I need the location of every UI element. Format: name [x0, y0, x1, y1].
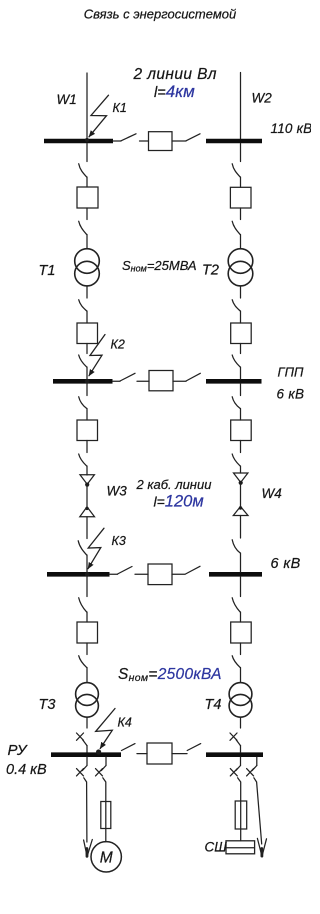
wire bus coupler GPP left lead	[113, 380, 121, 382]
disconnector blade coupler 6kV left	[118, 567, 133, 575]
wire feeder D down line	[254, 778, 262, 844]
wire cable W4	[240, 485, 242, 507]
wire	[86, 235, 88, 250]
transformer T3	[76, 683, 99, 706]
busbar RU 0.4kV left section	[51, 752, 121, 757]
breaker Q bus coupler GPP	[149, 371, 173, 391]
wire left below GPP bus	[86, 384, 88, 396]
feeder A stub from RU bus	[86, 757, 88, 766]
wire left below 110kV bus	[86, 144, 88, 162]
busbar 110kV left section	[44, 139, 113, 144]
feeder A automatic breaker x mark	[77, 769, 84, 776]
breaker Q bus coupler RU	[147, 743, 172, 764]
feeder D automatic breaker x mark	[247, 769, 254, 776]
fault K4 lightning arrow	[96, 709, 115, 749]
disconnector blade below T2	[232, 300, 240, 311]
disconnector blade above cable W4	[232, 454, 240, 466]
svg-text:К4: К4	[118, 716, 132, 730]
breaker Q4 left LV transformer feeder	[77, 622, 98, 643]
disconnector blade right below GPP bus	[232, 397, 240, 409]
fault K1 lightning arrow	[89, 95, 109, 137]
node K4 junction on RU bus	[96, 749, 101, 754]
fault K2 lightning arrow	[89, 335, 105, 376]
svg-text:l=120м: l=120м	[154, 493, 204, 511]
disconnector blade above GPP bus right	[232, 355, 240, 367]
wire	[240, 409, 242, 421]
disconnector blade above T4	[232, 656, 240, 668]
wire below T3	[86, 717, 88, 728]
feeder B automatic breaker x mark	[96, 769, 103, 776]
feeder C automatic breaker x mark	[230, 769, 237, 776]
panel SSh box	[226, 841, 255, 854]
wire into 6kV bus	[86, 555, 88, 572]
disconnector blade coupler 6kV right	[186, 566, 201, 574]
wire feeder B down line	[103, 778, 106, 842]
svg-text:М: М	[100, 850, 113, 867]
busbar 6kV right section	[209, 572, 262, 577]
transformer T1	[75, 249, 100, 274]
breaker Q3 cable feeder left	[77, 420, 98, 441]
breaker Q6 right HV side	[231, 323, 252, 344]
feeder C stub from RU bus	[240, 757, 242, 765]
wire bus coupler 6kV left lead	[110, 573, 118, 575]
cable termination W4 lower (triangle up)	[233, 507, 248, 516]
disconnector blade right above T2	[232, 221, 240, 234]
wire	[137, 380, 149, 382]
automatic breaker on T3 LV lead (x mark)	[77, 733, 84, 740]
svg-text:Sном=25МВА: Sном=25МВА	[122, 258, 197, 274]
motor M circle	[91, 842, 121, 872]
wire into GPP bus	[86, 367, 88, 379]
wire	[86, 441, 88, 453]
wire	[86, 517, 88, 539]
wire W2 line top segment	[240, 73, 242, 141]
wire left below 6kV bus	[86, 577, 88, 597]
wire right below 110kV bus	[240, 144, 242, 162]
svg-text:W3: W3	[107, 484, 128, 499]
disconnector blade left below GPP bus	[79, 397, 87, 409]
wire into GPP bus right	[240, 367, 242, 379]
svg-text:l=4км: l=4км	[154, 82, 195, 101]
svg-text:W2: W2	[252, 91, 273, 106]
svg-text:W1: W1	[57, 92, 77, 107]
feeder D automatic breaker blade	[252, 766, 257, 771]
svg-text:Т1: Т1	[39, 263, 56, 279]
disconnector blade coupler GPP right	[186, 373, 200, 381]
feeder A automatic breaker blade	[82, 766, 87, 771]
svg-text:2 линии Вл: 2 линии Вл	[133, 66, 217, 83]
wire	[86, 612, 88, 622]
busbar RU 0.4kV right section	[206, 752, 263, 757]
wire	[137, 753, 147, 755]
breaker Q2 left HV side	[77, 323, 98, 344]
busbar 110kV right section	[206, 139, 262, 144]
wire	[86, 311, 88, 323]
wire	[240, 668, 242, 683]
node junction on 6kV bus	[85, 572, 90, 577]
disconnector blade below T1	[79, 300, 87, 311]
transformer T2	[228, 249, 253, 274]
svg-text:Т2: Т2	[202, 263, 219, 279]
wire	[86, 409, 88, 421]
feeder B automatic breaker blade	[101, 766, 106, 771]
feeder D stub from RU bus	[256, 757, 258, 765]
svg-text:Sном=2500кВА: Sном=2500кВА	[118, 666, 222, 684]
svg-text:2 каб. линии: 2 каб. линии	[136, 477, 212, 492]
blade of automatic breaker T4 lead	[236, 740, 240, 746]
svg-text:Т3: Т3	[39, 697, 56, 713]
disconnector blade above GPP bus left	[79, 355, 87, 367]
wire	[86, 668, 88, 683]
wire	[172, 753, 187, 755]
disconnector blade left above T1	[79, 221, 87, 234]
wire feeder C down line	[238, 778, 241, 841]
feeder C automatic breaker blade	[236, 766, 241, 771]
wire	[240, 208, 242, 220]
wire cable W3	[86, 487, 88, 507]
wire	[86, 643, 88, 655]
svg-text:110 кВ: 110 кВ	[271, 121, 312, 136]
disconnector blade coupler GPP left	[120, 373, 135, 381]
wire right below 6kV bus	[240, 577, 242, 597]
disconnector blade bus coupler 110kV left	[121, 134, 136, 141]
wire feeder A down line	[84, 778, 87, 842]
disconnector blade above T3	[79, 656, 87, 668]
wire bus coupler 110kV left lead	[113, 140, 121, 142]
blade of automatic breaker T3 lead	[83, 740, 87, 746]
disconnector blade above 6kV bus left	[78, 541, 86, 555]
disconnector blade above cable W3	[79, 454, 87, 466]
arrow load feeder D	[257, 838, 266, 855]
svg-text:РУ: РУ	[8, 742, 28, 759]
cable termination W3 lower (triangle up)	[80, 507, 95, 517]
wire	[86, 208, 88, 220]
wire	[240, 516, 242, 539]
svg-text:Связь с энергосистемой: Связь с энергосистемой	[84, 7, 236, 22]
busbar 6kV left section	[47, 572, 110, 577]
fuse F1 motor feeder	[101, 802, 111, 829]
breaker Q1 left feeder	[77, 187, 98, 208]
disconnector blade coupler RU right	[187, 744, 201, 751]
wire W1 line top segment	[86, 73, 88, 139]
breaker Q bus coupler 110kV	[149, 132, 173, 151]
wire	[240, 643, 242, 655]
wire	[172, 573, 185, 575]
breaker Q8 right LV transformer feeder	[231, 622, 252, 643]
wire	[173, 380, 186, 382]
breaker Q5 right feeder	[230, 187, 251, 208]
disconnector blade left below 6kV bus	[79, 598, 87, 612]
svg-text:0.4 кВ: 0.4 кВ	[6, 762, 47, 778]
svg-text:ГПП: ГПП	[278, 365, 304, 380]
busbar GPP 6kV left section	[53, 379, 113, 384]
arrow load feeder A	[84, 840, 93, 856]
svg-text:К2: К2	[111, 338, 125, 352]
wire	[240, 344, 242, 354]
disconnector QS left feeder 110kV	[79, 164, 87, 177]
wire	[240, 612, 242, 622]
wire from coupler breaker 110kV	[172, 140, 186, 142]
wire into RU bus	[86, 746, 88, 753]
automatic breaker on T4 LV lead (x mark)	[230, 733, 237, 740]
fault K3 lightning arrow	[88, 528, 104, 569]
busbar GPP 6kV right section	[206, 379, 262, 384]
wire	[240, 177, 242, 187]
node junction on GPP bus	[85, 379, 90, 384]
wire below T4	[240, 717, 242, 728]
cable termination W4 upper (triangle down)	[234, 473, 248, 482]
node junction W1 / 110kV bus	[85, 138, 89, 142]
disconnector blade right below 6kV bus	[232, 598, 240, 612]
wire	[240, 466, 242, 473]
svg-text:6 кВ: 6 кВ	[277, 387, 305, 402]
wire	[86, 344, 88, 354]
breaker Q bus coupler 6kV	[148, 564, 172, 585]
transformer T4	[229, 683, 252, 706]
wire into 6kV bus right	[240, 553, 242, 572]
wire right below GPP bus	[240, 384, 242, 396]
wire	[240, 311, 242, 323]
fuse F2 lighting feeder	[235, 801, 247, 829]
wire	[135, 573, 148, 575]
wire below T1	[86, 286, 88, 298]
wire into RU bus right	[240, 746, 242, 753]
wire to coupler breaker 110kV	[140, 140, 149, 142]
svg-text:К3: К3	[112, 534, 126, 548]
wire below T2	[240, 286, 242, 298]
wire	[86, 177, 88, 187]
disconnector blade right feeder 110kV	[232, 164, 240, 177]
wire	[86, 466, 88, 475]
cable termination W3 upper (triangle down)	[80, 475, 94, 484]
svg-text:6 кВ: 6 кВ	[271, 556, 301, 572]
disconnector blade coupler RU left	[122, 744, 136, 751]
disconnector blade bus coupler 110kV right	[186, 134, 200, 141]
breaker Q7 cable feeder right	[231, 420, 252, 441]
wire	[240, 235, 242, 250]
disconnector blade above 6kV bus right	[232, 540, 240, 553]
svg-text:СШ: СШ	[205, 840, 228, 855]
feeder B stub from RU bus	[105, 757, 107, 766]
svg-text:К1: К1	[113, 101, 127, 115]
svg-text:W4: W4	[262, 486, 282, 501]
svg-text:Т4: Т4	[205, 697, 222, 713]
wire	[240, 441, 242, 453]
